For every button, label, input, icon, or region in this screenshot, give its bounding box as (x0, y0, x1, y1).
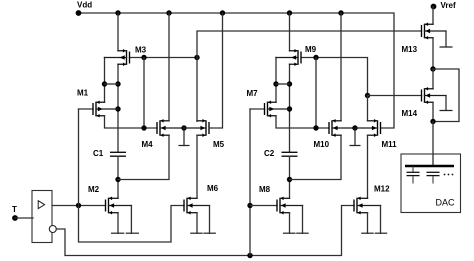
svg-text:M4: M4 (142, 140, 154, 149)
node M3 source junction (115, 81, 120, 86)
wire inverted output Qb (56, 206, 354, 256)
wire M8 bulk down (302, 206, 304, 234)
transistor M7 (265, 100, 290, 117)
ground tick M2 source (111, 232, 124, 234)
wire buffer output Q to M2 gate (52, 205, 106, 207)
ground tick M12 source (361, 232, 374, 234)
wire M3 drain to rail (117, 13, 119, 51)
ground tick M6 source (190, 232, 203, 234)
wire y84 bridge right (276, 83, 290, 85)
svg-text:M13: M13 (402, 45, 418, 54)
wire M12 bulk down (380, 206, 382, 234)
wire M13 source down (432, 38, 434, 69)
svg-text:M2: M2 (88, 185, 100, 194)
svg-text:M5: M5 (213, 140, 225, 149)
transistor M1 (93, 100, 118, 117)
transistor M10 (329, 119, 355, 137)
node Qb junction at M7 gate column (247, 253, 252, 258)
svg-text:M3: M3 (135, 46, 147, 55)
node M4-M5 bulk junction (181, 125, 186, 130)
svg-text:C2: C2 (264, 149, 275, 158)
power terminal Vref dot (431, 4, 437, 10)
wire M1 gate lead (79, 108, 94, 110)
node M13 source - M14 drain junction (430, 66, 435, 71)
transistor M12 (354, 197, 381, 215)
node rail-M10 junction (338, 10, 343, 15)
wire M14 source down (432, 102, 434, 121)
wire M3 bulk column (104, 58, 106, 103)
wire M9 gate node (301, 58, 368, 96)
wire M7 gate lead (250, 108, 265, 110)
wire M11 source to M12 drain (367, 135, 369, 198)
wire M13 drain to Vref (432, 7, 434, 25)
wire M10 drain to rail (340, 13, 342, 121)
transistor M9 (276, 49, 301, 66)
ground tick M8 bulk (296, 232, 309, 234)
wire M9 source column (289, 64, 291, 152)
transistor M13 (422, 22, 447, 39)
ground tick M8 source (283, 232, 296, 234)
wire bypass loop (433, 69, 459, 122)
wire M4 drain to rail (168, 13, 170, 121)
svg-text:Vref: Vref (441, 1, 456, 10)
node M11 drain junction (365, 93, 370, 98)
transistor M3 (105, 49, 130, 66)
svg-text:M14: M14 (402, 109, 418, 118)
capacitor C2 (282, 152, 298, 156)
node rail-M5gate junction (220, 10, 225, 15)
transistor M4 (157, 119, 184, 137)
wire M3 source column (117, 64, 119, 152)
wire C1 bottom to M2 drain (117, 156, 119, 198)
DAC ellipsis dots (444, 174, 454, 176)
wire M2 source down (117, 213, 119, 234)
buffer box U1 (32, 191, 52, 243)
wire M8 gate lead (250, 205, 277, 207)
svg-text:M9: M9 (305, 45, 317, 54)
wire y84 bridge (105, 83, 119, 85)
node M3 gate-riser junction (141, 55, 146, 60)
wire M7-M8 gate column (249, 109, 251, 256)
transistor M2 (106, 197, 132, 215)
wire M11 drain column (367, 96, 369, 121)
wire M5 gate to rail (209, 13, 223, 128)
svg-text:M12: M12 (374, 185, 390, 194)
wire M1 source to M4 gate (105, 116, 158, 128)
node M1 bulk junction (115, 106, 120, 111)
wire M8 source down (289, 213, 291, 234)
transistor M8 (277, 197, 303, 215)
node rail-M4 junction (166, 10, 171, 15)
wire DAC input (432, 122, 434, 167)
ground tick M12 bulk (375, 232, 388, 234)
svg-text:M11: M11 (382, 140, 398, 149)
ground tick M14 bulk (440, 96, 453, 111)
node M9 source junction (287, 81, 292, 86)
wire M3 gate node (130, 57, 198, 59)
wire M5 drain column and top link to M13 gate (197, 31, 422, 121)
wire M9 bulk column (275, 58, 277, 103)
ground tick M4-M5 bulk (179, 128, 190, 146)
inverter output bubble (49, 226, 56, 233)
node M8 gate junction (247, 203, 252, 208)
wire M9 drain to rail (289, 13, 291, 51)
node M14 source junction (430, 119, 435, 124)
capacitor DAC C-a (407, 166, 420, 184)
wire M12 source down (367, 213, 369, 234)
transistor M5 (184, 119, 209, 137)
power terminal Vdd dot (76, 10, 82, 16)
ground tick M6 bulk (203, 232, 216, 234)
ground tick M10-M11 bulk (350, 128, 361, 146)
node M3 gate-M5 drain junction (194, 55, 199, 60)
capacitor C1 (110, 152, 126, 156)
svg-text:M6: M6 (207, 184, 219, 193)
svg-text:T: T (12, 205, 17, 214)
wire riser M9 gate to M10 gate (315, 58, 317, 129)
buffer triangle symbol (38, 201, 44, 209)
power rail Vdd wire (79, 13, 395, 128)
transistor M11 (355, 119, 381, 137)
wire Q column to M1 gate and M6 gate (79, 109, 185, 242)
svg-text:Vdd: Vdd (77, 1, 92, 10)
wire T input (15, 217, 33, 219)
svg-text:C1: C1 (93, 149, 104, 158)
node M10-M11 bulk junction (352, 125, 357, 130)
input terminal T dot (12, 215, 18, 221)
ground tick M13 bulk (440, 31, 453, 47)
wire C2 bottom to M8 drain (289, 156, 291, 198)
node C2-M8-M10 junction (287, 177, 292, 182)
wire M5 source to M6 drain (196, 135, 198, 198)
node M9 bulk - M7 drain junction (273, 81, 278, 86)
wire M4 source link (118, 135, 169, 179)
wire riser M3 gate to M4 gate (143, 58, 145, 129)
node C1-M2-M4 junction (115, 177, 120, 182)
ground tick M2 bulk (126, 232, 139, 234)
svg-text:M8: M8 (259, 185, 271, 194)
wire M10 source link (290, 135, 342, 179)
DAC top plate bus (405, 165, 454, 168)
node M7 bulk junction (287, 106, 292, 111)
wire M6 bulk down (209, 206, 211, 234)
svg-text:M10: M10 (314, 140, 330, 149)
block DAC box (401, 154, 461, 213)
wire M2 bulk down (130, 206, 132, 234)
wire M7 source to M10 gate (276, 116, 329, 128)
transistor M14 (422, 87, 447, 104)
node M9 gate-riser junction (313, 55, 318, 60)
svg-text:M1: M1 (77, 89, 89, 98)
svg-text:DAC: DAC (436, 197, 456, 207)
node M4 gate junction (141, 125, 146, 130)
node M10 gate junction (313, 125, 318, 130)
node M3 bulk - M1 drain junction (102, 81, 107, 86)
wire M14 drain up (432, 69, 434, 89)
wire M14 gate lead (368, 95, 422, 97)
node rail-M9 junction (287, 10, 292, 15)
transistor M6 (184, 197, 210, 215)
svg-text:M7: M7 (247, 89, 259, 98)
node rail-M3 junction (115, 10, 120, 15)
capacitor DAC C-b (427, 172, 440, 183)
node Q junction at M1 gate column (76, 203, 81, 208)
wire M6 source down (196, 213, 198, 234)
